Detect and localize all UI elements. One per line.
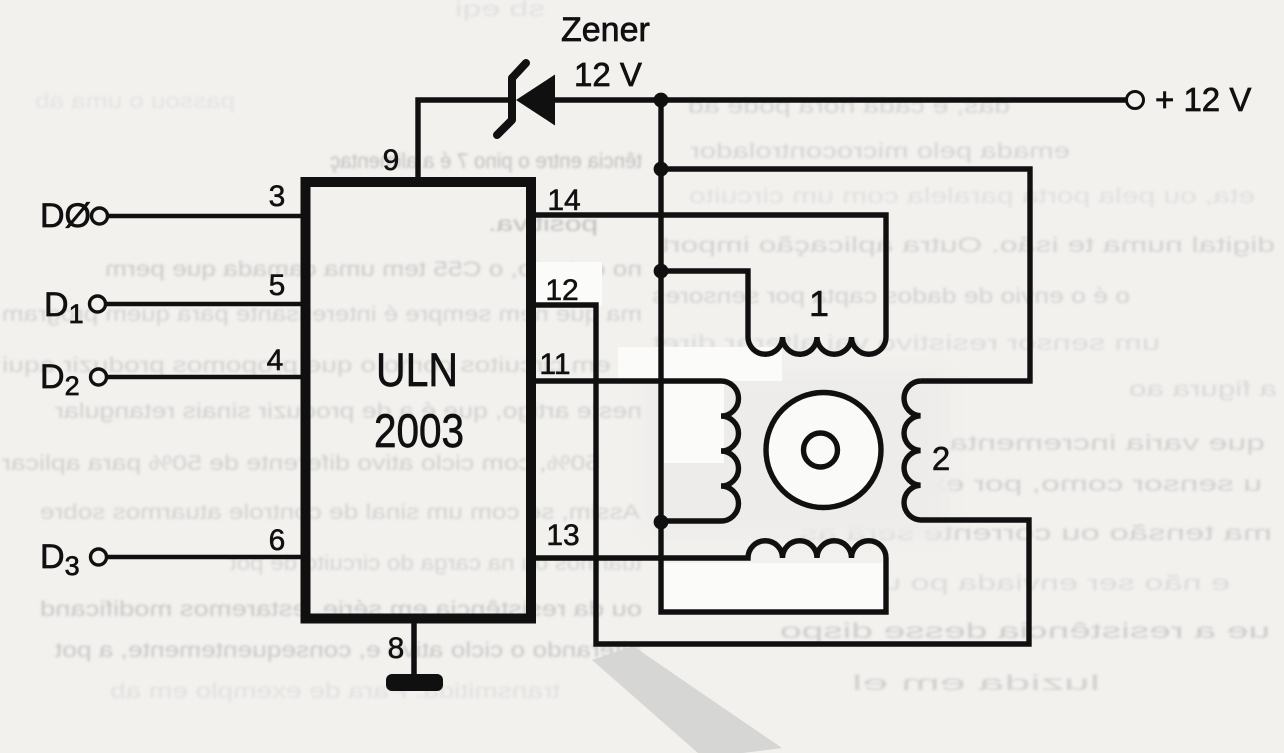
svg-text:4: 4	[267, 344, 284, 377]
svg-text:9: 9	[383, 144, 400, 177]
svg-text:transmitida. Para de exemplo e: transmitida. Para de exemplo em ab	[110, 680, 560, 703]
svg-text:que varia incrementa: que varia incrementa	[948, 432, 1265, 455]
svg-text:luzida em el: luzida em el	[852, 672, 1100, 695]
svg-text:12 V: 12 V	[574, 56, 642, 93]
svg-text:digital numa te isão. Outra ap: digital numa te isão. Outra aplicação im…	[661, 234, 1275, 257]
svg-text:neste artigo, que é a de produ: neste artigo, que é a de produzir sinais…	[55, 400, 642, 423]
svg-text:ULN: ULN	[376, 343, 458, 396]
svg-text:tência entre o pino 7 é a alim: tência entre o pino 7 é a alimentaç	[330, 150, 642, 173]
svg-text:ue a resistência desse dispo: ue a resistência desse dispo	[780, 620, 1270, 643]
svg-text:e não ser enviada po u: e não ser enviada po u	[882, 572, 1230, 595]
svg-text:1: 1	[809, 283, 829, 324]
svg-text:12: 12	[545, 274, 578, 307]
svg-text:passou o uma ab: passou o uma ab	[35, 90, 235, 113]
svg-text:sb eqi: sb eqi	[455, 0, 545, 21]
svg-text:Zener: Zener	[561, 11, 650, 49]
svg-text:emada pelo microcontrolador: emada pelo microcontrolador	[690, 140, 1070, 163]
svg-text:eta, ou pela porta paralela co: eta, ou pela porta paralela com um circu…	[689, 185, 1255, 208]
svg-text:13: 13	[546, 519, 579, 552]
svg-text:14: 14	[547, 184, 580, 217]
svg-text:6: 6	[269, 524, 286, 557]
svg-text:o é o envio de dados capta por: o é o envio de dados capta por sensores	[652, 285, 1130, 308]
svg-text:a figura ao: a figura ao	[1129, 378, 1277, 401]
svg-text:DØ: DØ	[40, 197, 91, 235]
svg-text:5: 5	[269, 269, 286, 302]
svg-text:2003: 2003	[374, 404, 464, 457]
svg-text:8: 8	[388, 632, 405, 665]
svg-text:2: 2	[932, 440, 950, 477]
svg-text:+ 12 V: + 12 V	[1155, 81, 1251, 118]
svg-text:alterando o ciclo ativo e, con: alterando o ciclo ativo e, consequenteme…	[55, 639, 642, 662]
svg-text:3: 3	[269, 180, 286, 213]
svg-text:11: 11	[539, 348, 570, 381]
